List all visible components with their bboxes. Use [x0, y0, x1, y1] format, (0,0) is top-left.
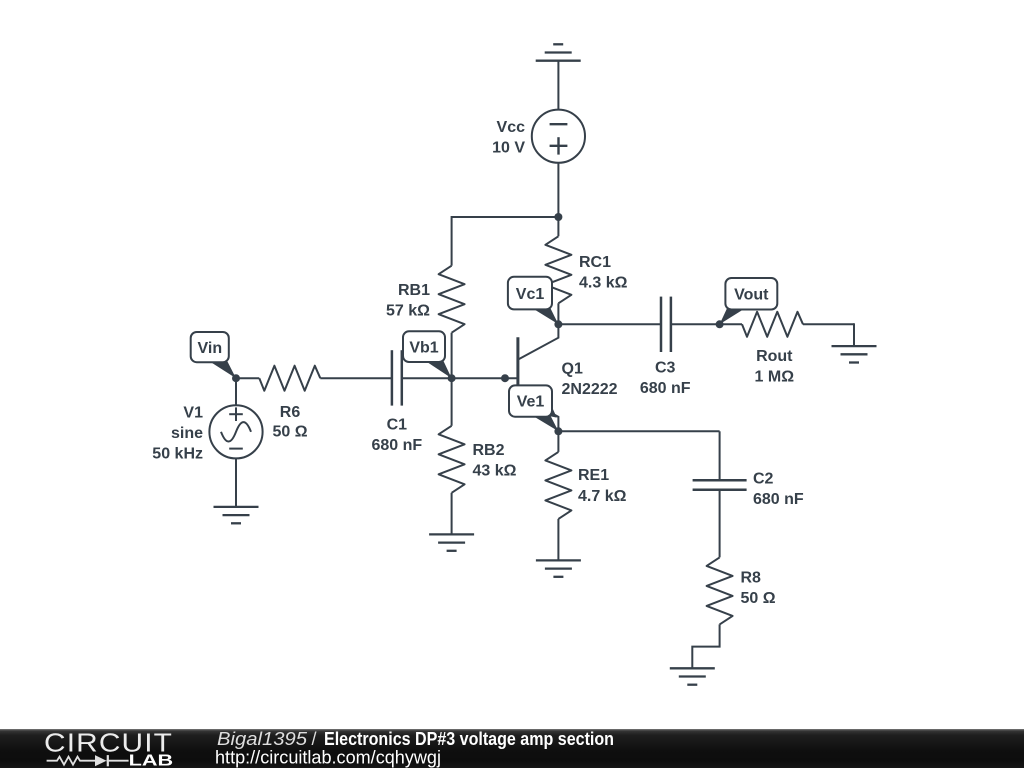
svg-text:V1: V1	[183, 405, 203, 422]
wire Vin node to R6	[236, 377, 259, 379]
node flag Vc1	[508, 277, 559, 325]
resistor R6	[259, 366, 320, 391]
wire emitter node to C2	[558, 430, 719, 432]
wire base	[452, 377, 518, 379]
resistor RB1	[439, 266, 465, 333]
svg-text:R6: R6	[280, 404, 301, 421]
wire RB1 to base node	[451, 333, 453, 379]
svg-text:Vin: Vin	[197, 340, 222, 357]
node Vb1	[448, 374, 456, 382]
svg-text:Ve1: Ve1	[517, 394, 545, 411]
svg-text:Electronics DP#3 voltage amp s: Electronics DP#3 voltage amp section	[324, 729, 614, 749]
top ground	[536, 44, 581, 60]
wire Vb1 node to RB2	[451, 378, 453, 426]
svg-text:1 MΩ: 1 MΩ	[755, 368, 795, 385]
svg-text:680 nF: 680 nF	[640, 380, 691, 397]
capacitor C1	[392, 350, 402, 405]
svg-text:50 Ω: 50 Ω	[741, 590, 776, 607]
node Ve1	[554, 427, 562, 435]
node Vc1	[554, 320, 562, 328]
svg-text:680 nF: 680 nF	[371, 437, 422, 454]
svg-text:R8: R8	[741, 569, 762, 586]
node Vin	[232, 374, 240, 382]
svg-text:RB2: RB2	[473, 442, 505, 459]
resistor RE1	[545, 452, 571, 519]
svg-text:Q1: Q1	[562, 360, 583, 377]
svg-text:http://circuitlab.com/cqhywgj: http://circuitlab.com/cqhywgj	[215, 747, 441, 767]
svg-text:C1: C1	[387, 417, 408, 434]
svg-text:Vout: Vout	[734, 286, 769, 303]
wire Rout to ground corner	[803, 323, 854, 325]
wire down to C2	[719, 431, 721, 480]
wire RC1 to collector	[557, 303, 559, 324]
capacitor C2	[693, 480, 747, 490]
wire to RB1 top	[452, 216, 559, 218]
wire down to RB1	[451, 216, 453, 266]
svg-text:C3: C3	[655, 360, 676, 377]
wire C3 to Vout node	[671, 323, 720, 325]
junction base wire	[501, 374, 509, 382]
ground (under V1)	[214, 507, 259, 523]
svg-text:4.7 kΩ: 4.7 kΩ	[578, 488, 627, 505]
svg-text:Vc1: Vc1	[516, 286, 545, 303]
wire V1 to ground	[235, 458, 237, 507]
wire RE1 to ground	[557, 519, 559, 561]
resistor R8	[707, 557, 733, 624]
svg-text:50 kHz: 50 kHz	[152, 446, 203, 463]
footer bar	[0, 729, 1024, 768]
svg-text:sine: sine	[171, 425, 203, 442]
svg-text:C2: C2	[753, 470, 774, 487]
wire Vin node to V1	[235, 378, 237, 405]
resistor RC1	[545, 236, 571, 303]
svg-text:43 kΩ: 43 kΩ	[473, 462, 517, 479]
resistor Rout	[742, 312, 803, 337]
ground (under RE1)	[536, 560, 581, 576]
wire C2 to R8	[719, 490, 721, 558]
svg-text:57 kΩ: 57 kΩ	[386, 302, 430, 319]
ground (under RB2)	[429, 534, 474, 550]
svg-text:4.3 kΩ: 4.3 kΩ	[579, 275, 628, 292]
voltage source Vcc	[532, 110, 585, 163]
ground (under R8)	[670, 668, 715, 684]
wire collector to C3	[558, 323, 661, 325]
wire emitter to RE1	[557, 431, 559, 452]
capacitor C3	[661, 297, 671, 352]
wire down to right ground	[853, 323, 855, 346]
wire Vout node to Rout	[720, 323, 742, 325]
svg-text:Bigal1395: Bigal1395	[217, 729, 308, 749]
node flag Vb1	[403, 331, 452, 378]
svg-text:Vb1: Vb1	[409, 339, 438, 356]
transistor Q1 (NPN 2N2222)	[518, 324, 559, 431]
wire ground to Vcc	[557, 61, 559, 110]
wire RB2 to ground	[451, 493, 453, 535]
svg-text:Vcc: Vcc	[497, 119, 526, 136]
node Vout	[716, 320, 724, 328]
ground (right of Rout)	[832, 346, 877, 362]
node flag Vout	[720, 278, 778, 324]
svg-text:/: /	[312, 729, 317, 749]
svg-text:RC1: RC1	[579, 254, 611, 271]
wire R6 to C1	[320, 377, 392, 379]
svg-text:2N2222: 2N2222	[562, 381, 618, 398]
svg-text:Rout: Rout	[756, 348, 793, 365]
node flag Vin	[191, 332, 236, 378]
svg-text:RE1: RE1	[578, 467, 609, 484]
node Vcc rail junction	[554, 213, 562, 221]
svg-text:50 Ω: 50 Ω	[272, 424, 307, 441]
wire R8 to ground (jog)	[692, 624, 719, 668]
svg-text:680 nF: 680 nF	[753, 491, 804, 508]
wire C1 to Vb1 node	[402, 377, 452, 379]
resistor RB2	[439, 426, 465, 493]
voltage source V1 (sine)	[209, 405, 262, 458]
svg-text:LAB: LAB	[129, 753, 174, 769]
svg-text:RB1: RB1	[398, 282, 430, 299]
wire Vcc to RC1	[557, 163, 559, 237]
svg-text:10 V: 10 V	[492, 140, 525, 157]
node flag Ve1	[509, 385, 558, 431]
CircuitLab logo	[0, 729, 1024, 769]
